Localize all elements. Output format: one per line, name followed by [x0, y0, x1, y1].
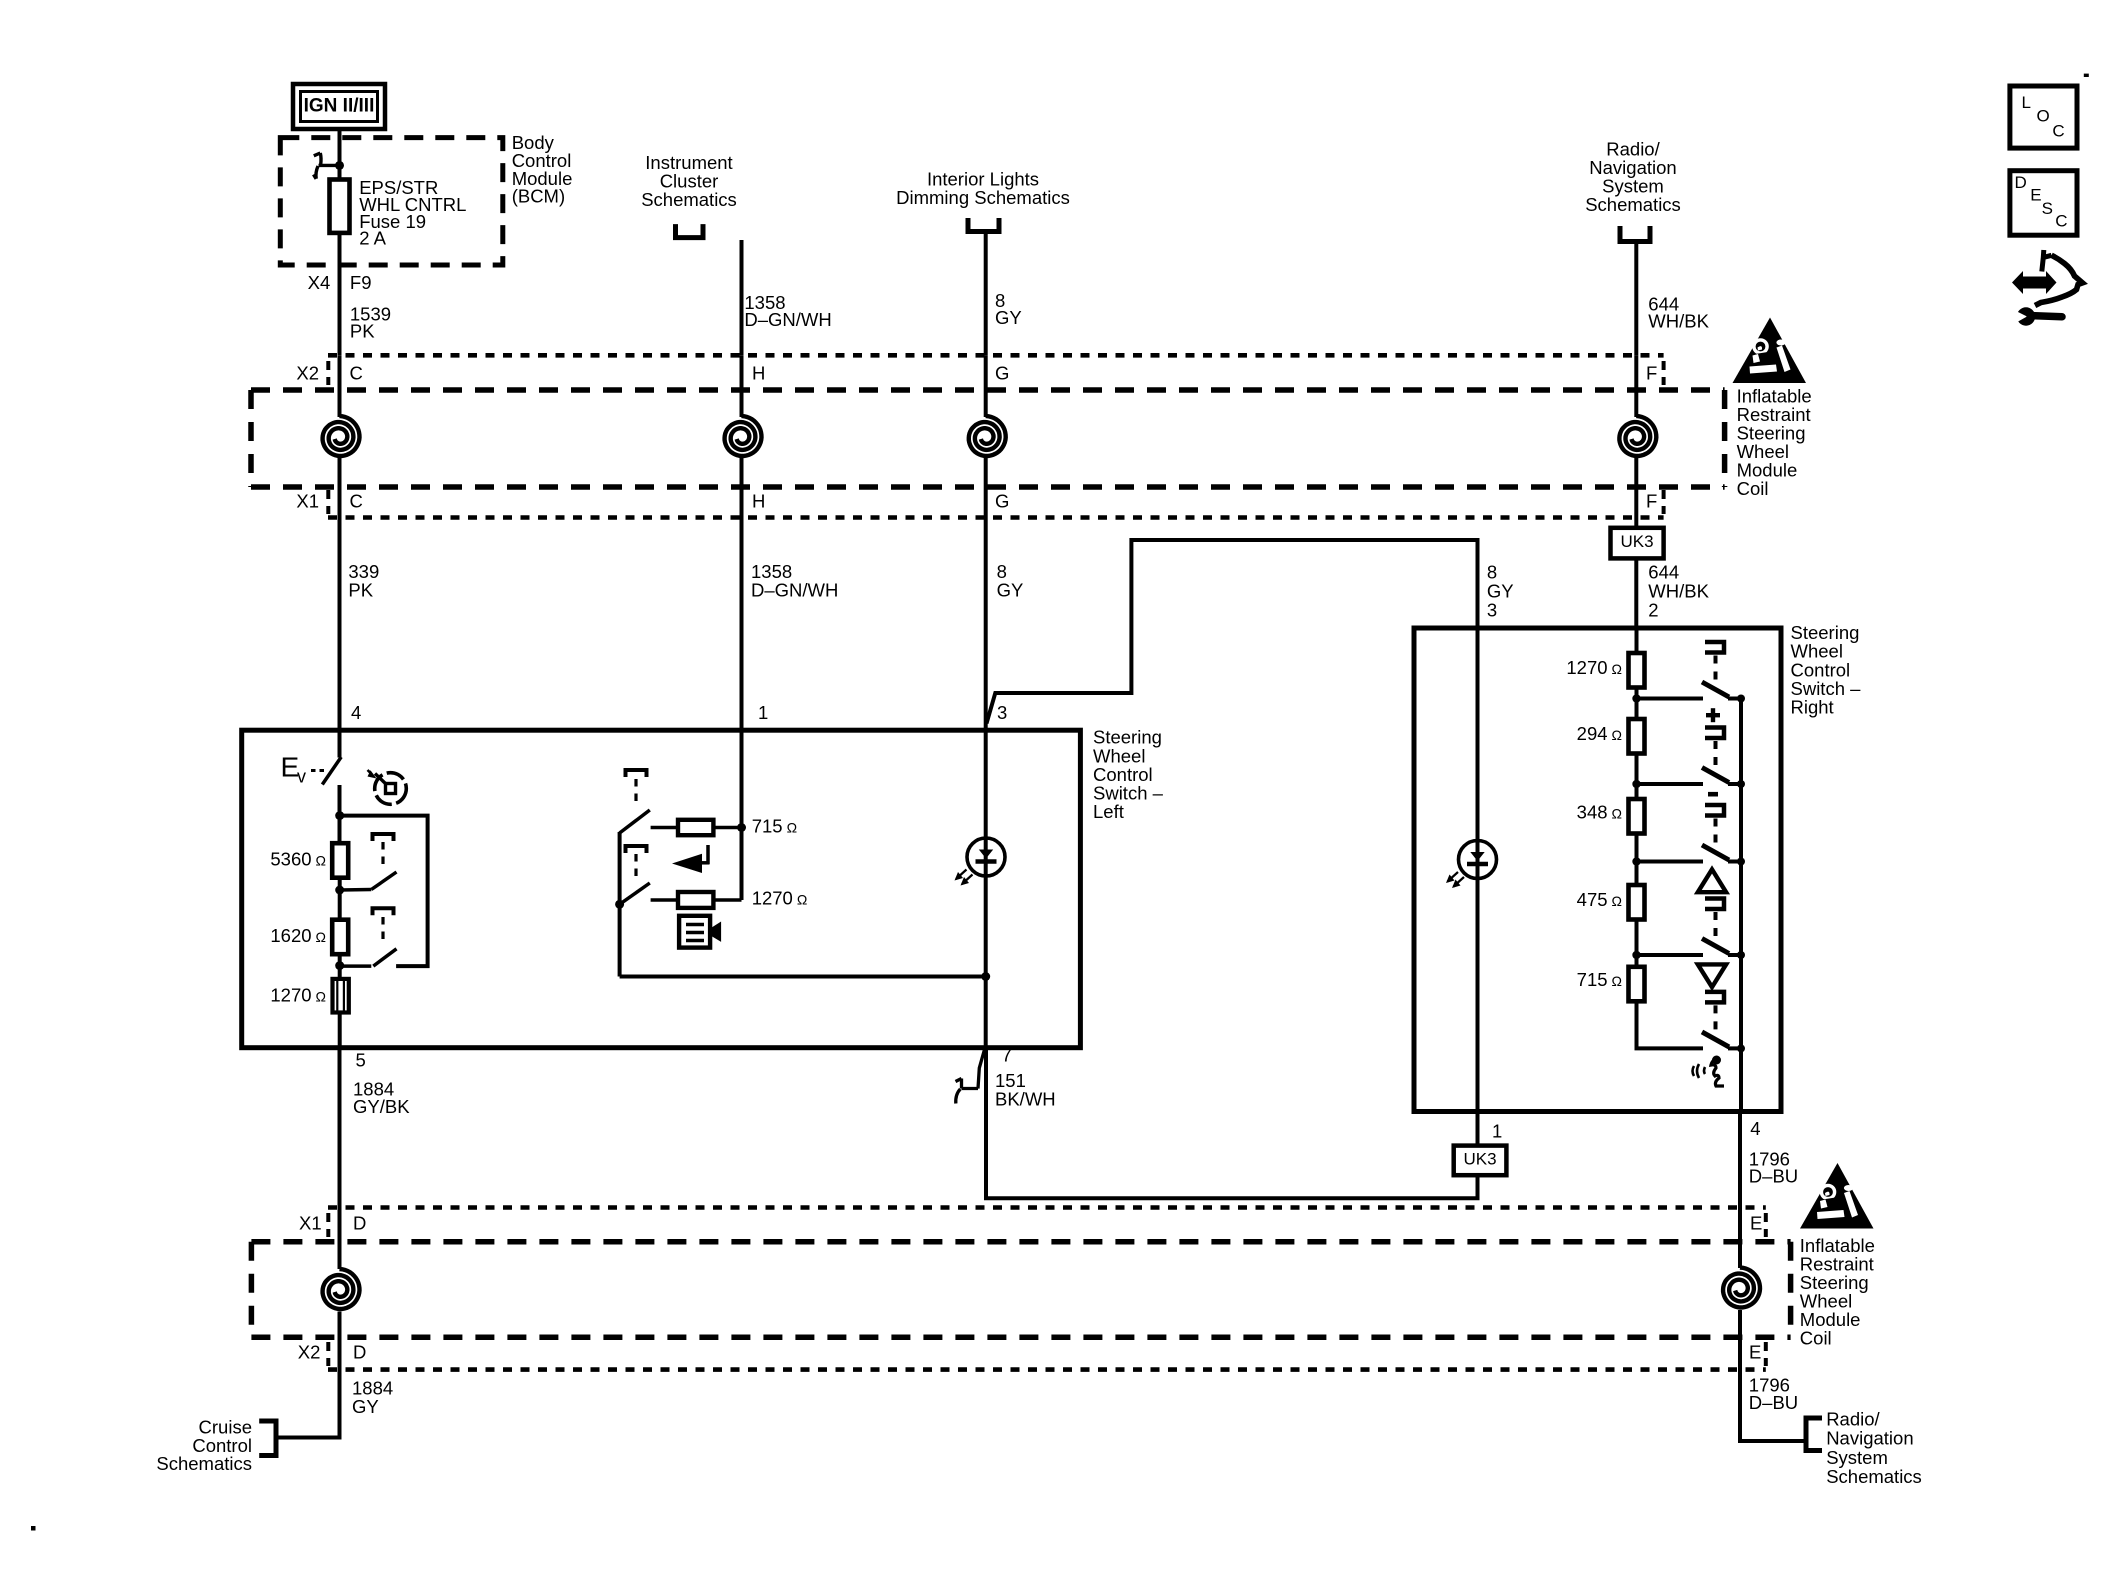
- junction dot R3: [1632, 857, 1640, 865]
- svg-text:X2: X2: [296, 363, 319, 384]
- switch T3 actuator: [1705, 805, 1724, 816]
- switch T4 stub: [1637, 953, 1704, 957]
- svg-text:2: 2: [1648, 600, 1658, 621]
- inline connector UK3 bottom: [1454, 1146, 1507, 1176]
- wire UK3 to ground run: [986, 1046, 1478, 1198]
- DESC legend box: [2010, 171, 2077, 236]
- inflatable coil box top edge: [251, 387, 1725, 393]
- junction dot R1: [1632, 694, 1640, 702]
- resistor 294 ohm right: [1629, 719, 1645, 754]
- wire 8 GY upper: [984, 234, 988, 355]
- Interior Lights off-page bracket: [968, 218, 999, 232]
- wire 1620 to junction C: [338, 954, 342, 979]
- svg-text:X1: X1: [299, 1213, 322, 1234]
- fuse F19 EPS/STR WHL CNTRL 2A: [330, 180, 350, 233]
- separator X1 left: [326, 490, 330, 514]
- junction dot D: [737, 823, 746, 832]
- volume plus icon: [1706, 713, 1720, 717]
- svg-text:Schematics: Schematics: [1826, 1466, 1922, 1487]
- resistor 1270 ohm right: [1629, 653, 1645, 688]
- seek down triangle icon: [1698, 964, 1726, 987]
- service tool arrow and wrench icon: [2012, 271, 2057, 294]
- rail dot R5: [1737, 1044, 1745, 1052]
- svg-text:X4: X4: [308, 272, 331, 293]
- wire 5360 to junction B: [338, 878, 342, 920]
- svg-text:UK3: UK3: [1620, 532, 1653, 551]
- separator X2 bottom left: [326, 1342, 330, 1366]
- svg-text:5360Ω: 5360Ω: [270, 849, 326, 870]
- rail dot R1: [1737, 695, 1745, 703]
- wire 1358 D-GN/WH upper: [740, 240, 744, 355]
- ignition feed clip symbol: [314, 153, 340, 179]
- Steering Wheel Control Switch Right box: [1414, 628, 1781, 1112]
- resistor 715 ohm right: [1629, 967, 1645, 1002]
- wire chain seg3: [1635, 834, 1639, 886]
- switch T1 stub: [1637, 697, 1704, 701]
- mid ladder bottom wire: [620, 975, 986, 979]
- right rail wire: [1739, 699, 1743, 1112]
- switch T3 stub: [1637, 860, 1704, 864]
- separator X2 left: [326, 361, 330, 385]
- wire branch 8 GY to right switch: [987, 540, 1478, 724]
- junction dot C: [335, 961, 344, 970]
- wire pin2 into chain: [1635, 628, 1639, 653]
- svg-text:L: L: [2022, 93, 2031, 112]
- svg-text:Right: Right: [1791, 697, 1834, 718]
- junction dot BCM: [335, 161, 344, 170]
- ground clip symbol 151: [956, 1046, 986, 1104]
- connector row X2 bottom dotted line: [328, 1367, 1766, 1372]
- junction dot F: [981, 972, 990, 981]
- svg-text:3: 3: [1487, 600, 1497, 621]
- svg-text:H: H: [752, 363, 765, 384]
- tiny mark bottom left: [31, 1526, 36, 1531]
- svg-text:Navigation: Navigation: [1826, 1428, 1913, 1449]
- svg-text:C: C: [2055, 212, 2067, 231]
- switch S1 actuator: [373, 834, 394, 841]
- switch S3 actuator: [626, 770, 647, 777]
- svg-text:F: F: [1646, 363, 1657, 384]
- svg-text:WH/BK: WH/BK: [1648, 580, 1709, 601]
- svg-text:Schematics: Schematics: [1585, 194, 1681, 215]
- svg-text:C: C: [350, 363, 363, 384]
- svg-text:GY: GY: [997, 580, 1024, 601]
- voice Ev switch lever: [322, 757, 341, 785]
- wire 8 GY to left switch pin 3: [984, 518, 988, 731]
- wire pin4 right down to radio: [1740, 1112, 1806, 1442]
- switch T3 lever: [1702, 845, 1729, 860]
- switch S2 lever: [373, 949, 396, 966]
- inflatable coil box 2 left edge: [249, 1242, 255, 1338]
- svg-text:IGN II/III: IGN II/III: [304, 96, 375, 117]
- svg-text:D–BU: D–BU: [1749, 1392, 1798, 1413]
- switch T1 lever: [1702, 682, 1729, 697]
- connector row X1 dotted line: [328, 515, 1664, 520]
- inflatable coil box 2 right edge: [1788, 1242, 1794, 1338]
- ladder right rail: [340, 816, 428, 967]
- wire chain seg5 to bottom stub: [1637, 1001, 1704, 1048]
- svg-text:Schematics: Schematics: [156, 1453, 252, 1474]
- switch S2 actuator: [373, 908, 394, 915]
- tiny mark top right: [2084, 74, 2089, 77]
- wire F through coil box: [1634, 355, 1638, 417]
- wire right LED to pin1: [1477, 878, 1479, 1112]
- svg-text:Dimming Schematics: Dimming Schematics: [896, 187, 1070, 208]
- svg-text:X1: X1: [296, 490, 319, 511]
- resistor 1270 ohm mid: [651, 898, 678, 902]
- svg-text:UK3: UK3: [1463, 1150, 1496, 1169]
- connector row X2 dotted line: [328, 353, 1664, 358]
- wire 339 PK to left switch pin 4: [338, 518, 342, 731]
- switch T4 lever: [1702, 939, 1729, 954]
- coil D clockspring: [323, 1269, 360, 1309]
- svg-text:WH/BK: WH/BK: [1648, 311, 1709, 332]
- svg-text:294Ω: 294Ω: [1577, 723, 1622, 744]
- resistor 475 ohm right: [1629, 885, 1645, 920]
- LED illumination right: [1459, 841, 1497, 879]
- wire C through coil box: [338, 355, 342, 417]
- wire G through coil box: [984, 355, 988, 417]
- svg-text:715Ω: 715Ω: [752, 816, 797, 837]
- junction dot R2: [1632, 780, 1640, 788]
- svg-text:4: 4: [351, 702, 361, 723]
- switch T2 actuator: [1705, 728, 1724, 739]
- inflatable coil box 2 bottom edge: [251, 1335, 1790, 1341]
- svg-text:1270Ω: 1270Ω: [1566, 657, 1622, 678]
- switch T4 actuator: [1705, 899, 1724, 910]
- svg-text:1270Ω: 1270Ω: [270, 985, 326, 1006]
- coil F clockspring: [1619, 416, 1656, 456]
- wire chain seg1: [1635, 688, 1639, 720]
- svg-text:4: 4: [1750, 1118, 1760, 1139]
- svg-text:1: 1: [758, 702, 768, 723]
- wire LED to pin7: [985, 876, 987, 1048]
- airbag warning triangle top: [1733, 318, 1807, 384]
- resistor 5360 ohm: [332, 843, 348, 878]
- LED illumination left: [967, 838, 1005, 876]
- wire chain seg2: [1635, 754, 1639, 800]
- switch T2 lever: [1702, 768, 1729, 783]
- svg-text:D–BU: D–BU: [1749, 1166, 1798, 1187]
- junction dot R4: [1632, 951, 1640, 959]
- coil H clockspring: [725, 416, 762, 456]
- wire 644 WH/BK to UK3: [1634, 518, 1638, 528]
- svg-text:1270Ω: 1270Ω: [752, 888, 808, 909]
- wire UK3 to right switch pin 2: [1634, 558, 1638, 628]
- separator F right row1: [1662, 361, 1666, 385]
- svg-text:BK/WH: BK/WH: [995, 1089, 1056, 1110]
- switch S4 actuator: [626, 846, 647, 853]
- switch S1 lever: [371, 872, 396, 890]
- wire 1358 to left switch pin 1: [740, 518, 744, 731]
- wire IGN to BCM: [338, 129, 342, 180]
- mute speaker icon: [679, 916, 710, 948]
- svg-text:System: System: [1826, 1447, 1888, 1468]
- svg-text:GY: GY: [1487, 580, 1514, 601]
- svg-text:2 A: 2 A: [359, 228, 386, 249]
- resistor 348 ohm right: [1629, 799, 1645, 834]
- inflatable coil box 2 top edge: [251, 1239, 1790, 1245]
- svg-text:1358: 1358: [751, 561, 792, 582]
- svg-text:Schematics: Schematics: [641, 189, 737, 210]
- svg-text:E: E: [2030, 186, 2041, 205]
- rail dot R2: [1737, 780, 1745, 788]
- resistor 715 ohm mid: [651, 826, 678, 830]
- svg-text:O: O: [2037, 107, 2050, 126]
- Radio Navigation bracket bottom: [1806, 1418, 1822, 1451]
- inflatable coil box left edge: [248, 390, 254, 487]
- svg-text:S: S: [2042, 199, 2053, 218]
- wire H through coil box: [740, 355, 744, 417]
- airbag warning triangle bottom: [1800, 1163, 1874, 1229]
- wire pin1 to UK3 bottom: [1476, 1112, 1480, 1146]
- switch S2 left stub: [340, 964, 372, 968]
- junction dot B: [335, 886, 344, 895]
- separator E right row2: [1764, 1342, 1768, 1366]
- wire Ev to junction: [338, 785, 342, 845]
- svg-text:3: 3: [997, 702, 1007, 723]
- wire chain seg4: [1635, 920, 1639, 967]
- mid ladder left rail: [618, 832, 622, 977]
- svg-text:G: G: [995, 363, 1009, 384]
- Cruise Control bracket: [259, 1421, 276, 1456]
- rail dot R4: [1737, 951, 1745, 959]
- svg-text:D–GN/WH: D–GN/WH: [744, 309, 831, 330]
- separator F right row2: [1662, 490, 1666, 514]
- svg-text:(BCM): (BCM): [512, 186, 565, 207]
- seek icon: [672, 854, 702, 873]
- separator E right row1: [1764, 1213, 1768, 1237]
- inflatable coil box right edge: [1722, 390, 1728, 487]
- coil G clockspring: [969, 416, 1006, 456]
- svg-text:PK: PK: [348, 580, 373, 601]
- svg-text:475Ω: 475Ω: [1577, 889, 1622, 910]
- voice recognition mic icon: [1693, 1064, 1706, 1078]
- Steering Wheel Control Switch Left box: [242, 730, 1081, 1047]
- cruise gauge icon: [375, 773, 407, 805]
- svg-text:D: D: [353, 1213, 366, 1234]
- Radio Navigation off-page bracket top: [1620, 226, 1650, 242]
- svg-text:H: H: [752, 490, 765, 511]
- svg-text:GY: GY: [995, 307, 1022, 328]
- power label IGN II/III box: [293, 84, 385, 129]
- inflatable coil box bottom edge: [251, 484, 1725, 490]
- LOC legend box: [2010, 86, 2077, 148]
- svg-text:D–GN/WH: D–GN/WH: [751, 580, 838, 601]
- svg-text:Radio/: Radio/: [1826, 1408, 1880, 1429]
- separator X1 bottom left: [326, 1213, 330, 1237]
- svg-text:644: 644: [1648, 561, 1679, 582]
- svg-text:C: C: [2052, 121, 2064, 140]
- wire 644 WH/BK upper: [1634, 244, 1638, 355]
- svg-text:C: C: [350, 490, 363, 511]
- wire pin3 right into box: [1476, 628, 1480, 1112]
- svg-text:Coil: Coil: [1737, 478, 1769, 499]
- svg-text:GY/BK: GY/BK: [353, 1096, 410, 1117]
- junction dot A: [335, 811, 344, 820]
- voice Ev switch dashes: [311, 769, 325, 772]
- switch T5 lever: [1702, 1032, 1729, 1047]
- svg-text:8: 8: [1487, 561, 1497, 582]
- wire pin3 into box upper: [984, 730, 988, 1047]
- svg-text:F9: F9: [350, 272, 372, 293]
- wire 1270 to pin 5: [338, 1013, 342, 1048]
- BCM dashed box: [280, 138, 503, 265]
- svg-text:D: D: [353, 1341, 366, 1362]
- switch S4 lever: [620, 883, 650, 904]
- junction dot E: [615, 900, 624, 909]
- switch S3 lever: [620, 810, 650, 833]
- svg-text:348Ω: 348Ω: [1577, 802, 1622, 823]
- volume minus icon: [1708, 792, 1718, 797]
- rail dot R3: [1737, 858, 1745, 866]
- svg-text:Left: Left: [1093, 801, 1124, 822]
- switch T2 stub: [1637, 782, 1704, 786]
- svg-text:GY: GY: [352, 1396, 379, 1417]
- connector row X1 bottom dotted line: [328, 1205, 1766, 1210]
- svg-text:v: v: [297, 766, 306, 786]
- coil C clockspring: [323, 416, 360, 456]
- svg-text:E: E: [1749, 1341, 1761, 1362]
- switch T5 actuator: [1705, 992, 1724, 1003]
- inline connector UK3 top: [1611, 528, 1664, 559]
- coil E clockspring: [1723, 1268, 1760, 1308]
- svg-text:8: 8: [997, 561, 1007, 582]
- svg-text:X2: X2: [298, 1341, 321, 1362]
- resistor 1620 ohm: [332, 920, 348, 955]
- svg-text:F: F: [1646, 490, 1657, 511]
- wire pin1 into box: [740, 730, 744, 900]
- svg-text:5: 5: [356, 1050, 366, 1071]
- svg-text:D: D: [2015, 173, 2027, 192]
- svg-text:1620Ω: 1620Ω: [270, 925, 326, 946]
- seek up triangle icon: [1698, 869, 1726, 892]
- Instrument Cluster off-page bracket: [676, 224, 704, 238]
- svg-text:PK: PK: [350, 320, 375, 341]
- fuse style resistor 1270 ohm left: [333, 979, 349, 1013]
- wire fuse to connector X4: [338, 233, 342, 355]
- svg-text:7: 7: [1002, 1045, 1012, 1066]
- wire pin5 down to cruise: [279, 1048, 340, 1438]
- svg-text:G: G: [995, 490, 1009, 511]
- wire pin4 into box: [338, 730, 342, 757]
- svg-text:1: 1: [1492, 1121, 1502, 1142]
- svg-text:339: 339: [348, 561, 379, 582]
- svg-text:715Ω: 715Ω: [1577, 969, 1622, 990]
- switch S1 left stub: [340, 888, 372, 892]
- switch T1 actuator: [1705, 642, 1724, 653]
- svg-text:Coil: Coil: [1800, 1328, 1832, 1349]
- svg-text:E: E: [1750, 1213, 1762, 1234]
